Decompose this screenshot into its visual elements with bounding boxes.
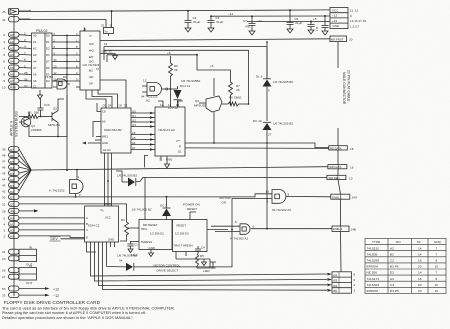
timer 556 D2 right	[173, 220, 208, 252]
wire wr data	[145, 156, 149, 168]
svg-text:7: 7	[436, 252, 438, 256]
svg-text:24: 24	[83, 28, 87, 32]
svg-text:DEV: DEV	[51, 237, 59, 241]
svg-text:D1: D1	[10, 184, 14, 188]
svg-text:94 74LS02 A2: 94 74LS02 A2	[272, 208, 291, 212]
pin number labels 2-10	[2, 32, 28, 90]
svg-text:9: 9	[3, 79, 5, 83]
svg-text:+5: +5	[167, 51, 171, 55]
svg-text:POWER ON: POWER ON	[183, 203, 200, 207]
svg-text:MOTOR: MOTOR	[220, 196, 232, 200]
svg-text:−12: −12	[228, 12, 233, 16]
svg-text:1/6 74LS05 B2: 1/6 74LS05 B2	[117, 174, 137, 178]
svg-text:GND: GND	[102, 141, 108, 145]
svg-text:G∕D: G∕D	[89, 42, 94, 46]
svg-text:A6: A6	[33, 79, 37, 83]
svg-text:560Ω: 560Ω	[234, 96, 242, 100]
svg-text:IRQ: IRQ	[10, 210, 16, 214]
svg-text:74LS132: 74LS132	[367, 246, 380, 250]
svg-text:C4: C4	[201, 246, 205, 250]
ENBL 1 box	[331, 194, 350, 199]
svg-text:NE 556: NE 556	[367, 271, 378, 275]
svg-text:2: 2	[24, 32, 26, 36]
svg-text:¼ 74LS02 A2: ¼ 74LS02 A2	[230, 236, 249, 240]
cap C1 10uF	[127, 242, 139, 253]
svg-text:Ø3: Ø3	[333, 273, 337, 277]
svg-text:D0: D0	[46, 34, 50, 38]
transistor Q1 2N3906	[19, 112, 31, 133]
pins 26 27 IN OUT block	[9, 268, 37, 280]
svg-text:10: 10	[266, 190, 270, 194]
svg-text:H∕Q: H∕Q	[89, 48, 95, 52]
svg-text:2: 2	[79, 193, 81, 197]
svg-text:R3: R3	[121, 218, 125, 222]
resistor R7 3K	[229, 82, 233, 104]
svg-text:D6: D6	[46, 66, 50, 70]
svg-text:+5: +5	[313, 17, 317, 21]
svg-text:10: 10	[435, 265, 439, 269]
timer 556 D2 left	[139, 220, 172, 250]
svg-text:A2 A3: A2 A3	[103, 148, 111, 152]
svg-text:D3: D3	[46, 53, 50, 57]
svg-text:34: 34	[119, 259, 123, 263]
svg-text:D5: D5	[124, 104, 128, 108]
data bus funnel	[19, 35, 328, 192]
svg-text:5: 5	[235, 220, 237, 224]
svg-text:C8: C8	[119, 104, 123, 108]
svg-text:Q3: Q3	[132, 123, 136, 127]
svg-text:B: B	[86, 222, 88, 226]
svg-text:8: 8	[436, 259, 438, 263]
svg-text:A3: A3	[33, 53, 37, 57]
svg-text:16: 16	[418, 277, 422, 281]
svg-text:D4: D4	[108, 104, 112, 108]
LS174 top stubs	[158, 95, 183, 168]
vertical text 20 pin flat cable	[342, 70, 351, 105]
svg-text:10: 10	[349, 176, 353, 180]
svg-text:18: 18	[350, 147, 354, 151]
loop wires q1 q2	[29, 95, 67, 137]
svg-text:GND: GND	[333, 24, 341, 28]
svg-text:A7: A7	[10, 79, 14, 83]
svg-text:C3: C3	[390, 283, 394, 287]
svg-text:9: 9	[267, 199, 269, 203]
schmitt nand A2	[142, 83, 171, 96]
transistor Q3	[199, 78, 228, 143]
svg-text:C2: C2	[390, 259, 394, 263]
svg-text:C1: C1	[134, 243, 138, 247]
svg-text:+5: +5	[210, 64, 214, 68]
WR DATA box	[328, 165, 347, 169]
svg-text:¼ 74LS132: ¼ 74LS132	[49, 189, 65, 193]
svg-text:D4: D4	[10, 166, 14, 170]
svg-text:D0: D0	[10, 190, 14, 194]
power on reset diode	[162, 209, 171, 217]
WR REQ box	[327, 175, 346, 179]
svg-text:Q2: Q2	[132, 118, 136, 122]
svg-text:13,15,17,19: 13,15,17,19	[350, 19, 366, 23]
pin 25 buffer	[9, 9, 31, 15]
svg-text:3: 3	[3, 40, 5, 44]
svg-text:41: 41	[2, 18, 6, 22]
svg-text:4: 4	[3, 222, 5, 226]
svg-text:Q3: Q3	[10, 196, 14, 200]
power pin block	[104, 11, 114, 33]
svg-text:A4: A4	[10, 59, 14, 63]
resistor R6 560	[228, 102, 249, 106]
svg-text:MALE CONNECTOR: MALE CONNECTOR	[342, 72, 346, 105]
svg-text:A4: A4	[33, 60, 37, 64]
svg-text:D2: D2	[10, 178, 14, 182]
latch 74LS323 C7	[80, 28, 100, 91]
svg-text:4: 4	[354, 283, 356, 287]
svg-text:33: 33	[2, 294, 6, 298]
svg-text:C8: C8	[102, 110, 106, 114]
svg-text:14: 14	[418, 252, 422, 256]
svg-text:74LS259: 74LS259	[367, 259, 380, 263]
svg-text:+12: +12	[332, 19, 337, 23]
svg-text:.01μF: .01μF	[295, 21, 303, 25]
svg-text:10: 10	[435, 283, 439, 287]
svg-text:A5: A5	[132, 136, 136, 140]
svg-text:RD DATA: RD DATA	[330, 146, 342, 150]
pins 21 20 IN OUT block	[9, 249, 37, 261]
rc network right of 556	[176, 246, 216, 268]
svg-text:8: 8	[354, 273, 356, 277]
wire pin28 stub w arrow	[19, 210, 34, 212]
svg-text:48: 48	[2, 154, 6, 158]
svg-text:IN: IN	[29, 246, 32, 250]
svg-text:DC4 12: DC4 12	[180, 84, 191, 88]
data pin ovals 49-42	[9, 147, 20, 194]
svg-text:2: 2	[3, 234, 5, 238]
svg-text:5: 5	[268, 89, 270, 93]
diode DL9	[266, 42, 268, 79]
svg-text:43: 43	[2, 184, 6, 188]
svg-text:3: 3	[24, 38, 26, 42]
svg-text:GND: GND	[149, 246, 155, 250]
svg-text:4: 4	[3, 46, 5, 50]
svg-text:Q3: Q3	[10, 203, 14, 207]
svg-text:IN: IN	[29, 264, 32, 268]
svg-text:RESET: RESET	[177, 223, 187, 227]
svg-text:WR PROT: WR PROT	[331, 37, 344, 41]
svg-text:14A: 14A	[352, 196, 357, 200]
svg-text:3K: 3K	[236, 88, 240, 92]
svg-text:C6: C6	[103, 104, 107, 108]
wire wr req	[143, 176, 327, 178]
bus line to gate region	[31, 167, 328, 170]
svg-text:A4: A4	[132, 141, 136, 145]
svg-text:B3 P6: B3 P6	[390, 265, 399, 269]
address pin ovals 2-10	[9, 32, 20, 89]
svg-text:1,3,5,7: 1,3,5,7	[350, 24, 360, 28]
pins 30 31 28 ovals	[9, 194, 256, 218]
svg-text:560: 560	[34, 111, 39, 115]
svg-text:49: 49	[2, 148, 6, 152]
svg-text:30: 30	[2, 195, 6, 199]
svg-text:Q1: Q1	[132, 114, 136, 118]
capacitor C10	[38, 104, 44, 117]
svg-text:13 P12: 13 P12	[168, 106, 178, 110]
svg-text:47: 47	[2, 160, 6, 164]
svg-text:A2: A2	[33, 47, 37, 51]
svg-text:74LS174: 74LS174	[367, 277, 380, 281]
svg-text:SP: SP	[89, 82, 93, 86]
svg-text:Vᶜᶜ: Vᶜᶜ	[176, 139, 180, 143]
P6A bottom stubs to 9334	[105, 153, 112, 206]
wire LS174 vcc to rd data	[143, 143, 329, 177]
svg-text:A7: A7	[33, 66, 37, 70]
svg-text:Ø2: Ø2	[333, 279, 337, 283]
svg-text:7: 7	[436, 271, 438, 275]
svg-text:44: 44	[2, 178, 6, 182]
svg-text:6309 P6A B2: 6309 P6A B2	[104, 128, 122, 132]
ROM P6A B2	[101, 108, 131, 153]
svg-text:A0: A0	[10, 217, 14, 221]
svg-text:26: 26	[2, 269, 6, 273]
svg-text:SYSTEM BUSS: SYSTEM BUSS	[15, 111, 19, 137]
svg-text:1/6 74LS05 B2: 1/6 74LS05 B2	[273, 80, 293, 84]
svg-text:MPSU51: MPSU51	[48, 123, 60, 127]
svg-text:A2: A2	[10, 46, 14, 50]
svg-text:−12: −12	[53, 294, 59, 298]
svg-text:A5: A5	[10, 66, 14, 70]
svg-text:A7: A7	[132, 146, 136, 150]
svg-text:D2: D2	[390, 271, 394, 275]
node +5V line from pin25	[29, 10, 31, 11]
svg-text:9334 C2: 9334 C2	[88, 224, 100, 228]
wires pins2-10 to P5A	[19, 35, 32, 87]
svg-text:RESET: RESET	[187, 207, 197, 211]
svg-text:MOTOR CONTROL: MOTOR CONTROL	[154, 264, 181, 268]
svg-text:31: 31	[2, 202, 6, 206]
svg-text:5: 5	[24, 64, 26, 68]
20 pin connector power block	[330, 8, 348, 29]
svg-text:A6: A6	[10, 73, 14, 77]
svg-text:R6: R6	[229, 96, 233, 100]
svg-text:2: 2	[3, 33, 5, 37]
diode DC10	[263, 123, 272, 130]
svg-text:+12: +12	[257, 19, 262, 23]
decoder 9334 C2	[85, 206, 119, 242]
svg-text:R5: R5	[200, 254, 204, 258]
svg-text:EPROM: EPROM	[367, 265, 379, 269]
wire to diode chain	[104, 47, 267, 105]
svg-text:10: 10	[435, 289, 439, 293]
svg-text:ENBL 1: ENBL 1	[332, 195, 342, 199]
pins 50 33 power	[9, 286, 46, 298]
svg-text:THRESH: THRESH	[141, 240, 153, 244]
svg-text:Detailed operation procedures: Detailed operation procedures are shown …	[2, 316, 134, 320]
svg-text:FLOPPY DISK DRIVE CONTROLLER C: FLOPPY DISK DRIVE CONTROLLER CARD	[4, 300, 100, 305]
svg-text:TRIG: TRIG	[141, 227, 148, 231]
svg-text:6: 6	[354, 278, 356, 282]
wire bus up to data wires	[66, 35, 68, 171]
svg-text:B2: B2	[390, 252, 394, 256]
svg-text:6: 6	[3, 59, 5, 63]
svg-text:36: 36	[24, 77, 28, 81]
svg-text:20: 20	[349, 38, 353, 42]
svg-text:10μF: 10μF	[131, 253, 138, 257]
svg-text:1/6 74LS05B2: 1/6 74LS05B2	[181, 79, 201, 83]
svg-text:14: 14	[418, 271, 422, 275]
svg-text:MPSU55: MPSU55	[194, 104, 206, 108]
svg-text:DRIVE SELECT: DRIVE SELECT	[157, 269, 179, 273]
svg-text:D6: D6	[10, 154, 14, 158]
svg-text:C: C	[86, 228, 88, 232]
svg-text:D3: D3	[10, 172, 14, 176]
svg-text:4: 4	[24, 45, 26, 49]
svg-text:8: 8	[436, 277, 438, 281]
svg-text:2: 2	[354, 289, 356, 293]
transistor Q2	[47, 104, 58, 128]
svg-text:D2: D2	[46, 47, 50, 51]
svg-text:NO: NO	[396, 240, 401, 244]
svg-text:20: 20	[418, 289, 422, 293]
svg-text:C7: C7	[243, 19, 247, 23]
capacitor C6	[308, 22, 315, 35]
junction dots data bus	[66, 35, 68, 82]
data bus wires P5A to latch	[52, 36, 80, 88]
svg-text:C5 Q6: C5 Q6	[104, 202, 113, 206]
svg-text:20: 20	[418, 283, 422, 287]
svg-text:C10: C10	[44, 103, 50, 107]
svg-text:A0: A0	[10, 33, 14, 37]
svg-text:74LS323: 74LS323	[367, 283, 380, 287]
svg-text:14B: 14B	[351, 228, 356, 232]
svg-text:A∕D: A∕D	[89, 75, 93, 79]
ROM P5A 02 B1	[32, 33, 53, 88]
svg-text:Vᶜ: Vᶜ	[89, 34, 92, 38]
wire pin31	[19, 204, 127, 218]
svg-text:Please plug the card into slot: Please plug the card into slot number 6 …	[2, 311, 146, 315]
svg-text:E: E	[86, 236, 88, 240]
svg-text:3K: 3K	[174, 68, 178, 72]
svg-text:D7: D7	[10, 148, 14, 152]
svg-text:45: 45	[2, 172, 6, 176]
svg-text:A1: A1	[10, 40, 14, 44]
svg-text:16: 16	[350, 166, 354, 170]
phase connector block	[332, 272, 352, 293]
svg-text:Q0: Q0	[132, 109, 136, 113]
resistor R3	[120, 218, 139, 242]
svg-text:A: A	[86, 216, 88, 220]
svg-text:D3 P5: D3 P5	[390, 289, 399, 293]
svg-text:A3: A3	[10, 235, 14, 239]
svg-text:D1: D1	[46, 40, 50, 44]
svg-text:Vο: Vο	[105, 29, 109, 33]
svg-text:+12: +12	[53, 287, 59, 291]
svg-text:OUT: OUT	[26, 281, 33, 285]
svg-text:27: 27	[2, 275, 6, 279]
svg-text:D4: D4	[46, 79, 50, 83]
svg-text:WR REQ: WR REQ	[329, 176, 340, 180]
diode 1/6 LS05 mid	[128, 178, 135, 187]
svg-text:10: 10	[2, 86, 6, 90]
svg-text:46: 46	[2, 166, 6, 170]
svg-text:35: 35	[24, 71, 28, 75]
svg-text:A2: A2	[10, 229, 14, 233]
resistor R0 3K	[169, 56, 173, 95]
capacitor C5	[287, 10, 294, 33]
svg-text:B∕2: B∕2	[89, 69, 93, 73]
svg-text:DL 9: DL 9	[256, 75, 263, 79]
svg-text:Ø1: Ø1	[333, 284, 337, 288]
svg-text:1/2 556 D2: 1/2 556 D2	[175, 232, 189, 236]
svg-text:74LS174 A3: 74LS174 A3	[158, 128, 175, 132]
vertical text APPLE II SYSTEM BUSS	[10, 111, 19, 137]
svg-text:5: 5	[3, 53, 5, 57]
wire +5 stub	[107, 55, 231, 82]
svg-text:7: 7	[436, 246, 438, 250]
RD DATA box	[329, 146, 348, 150]
pin 41 oval	[9, 17, 31, 22]
svg-text:P5A 02: P5A 02	[36, 29, 47, 33]
svg-text:VCC: VCC	[105, 216, 111, 220]
svg-text:9: 9	[350, 14, 352, 18]
svg-text:A6: A6	[132, 131, 136, 135]
svg-text:6: 6	[24, 58, 26, 62]
svg-text:Q2: Q2	[53, 107, 57, 111]
svg-text:D7: D7	[46, 60, 50, 64]
hex FF 74LS174 A3	[155, 107, 185, 156]
svg-text:DL: DL	[178, 150, 182, 154]
svg-text:50: 50	[2, 287, 6, 291]
wires LS323 to P6A	[86, 80, 126, 108]
svg-text:20 PIN FLAT CABLE: 20 PIN FLAT CABLE	[347, 70, 351, 102]
svg-text:20: 20	[2, 257, 6, 261]
parts table	[365, 239, 446, 294]
svg-text:.01μF: .01μF	[193, 20, 201, 24]
9334 bottom stubs	[87, 242, 328, 290]
svg-text:12: 12	[143, 79, 147, 83]
svg-text:1: 1	[78, 175, 80, 179]
svg-text:TRIG THRESH: TRIG THRESH	[174, 243, 193, 247]
top +5V power rail	[19, 10, 331, 12]
svg-text:A5: A5	[33, 73, 37, 77]
svg-text:E∕D: E∕D	[89, 55, 93, 59]
svg-text:20: 20	[418, 265, 422, 269]
svg-text:1/2 556 D2: 1/2 556 D2	[150, 232, 164, 236]
svg-text:28: 28	[2, 209, 6, 213]
svg-text:16: 16	[418, 259, 422, 263]
svg-text:2N3906: 2N3906	[31, 128, 42, 132]
svg-text:TYPE: TYPE	[372, 240, 380, 244]
wire to right gate chain	[104, 50, 249, 104]
svg-text:A1: A1	[33, 40, 37, 44]
svg-text:Q3: Q3	[195, 99, 199, 103]
svg-text:GND: GND	[108, 238, 114, 242]
svg-text:D5: D5	[10, 160, 14, 164]
svg-text:A0: A0	[102, 120, 106, 124]
svg-text:7: 7	[3, 66, 5, 70]
capacitor C3	[208, 16, 215, 32]
svg-text:Ø0: Ø0	[333, 289, 337, 293]
svg-text:R: R	[179, 145, 181, 149]
svg-text:LMΩ: LMΩ	[203, 269, 210, 273]
svg-text:7: 7	[24, 51, 26, 55]
capacitor C7	[249, 16, 256, 35]
nor gate A2 right top	[232, 190, 331, 204]
capacitor C2	[185, 11, 192, 32]
right connector spine	[338, 42, 341, 272]
svg-text:8: 8	[288, 192, 290, 196]
schmitt nand B1	[70, 170, 84, 197]
apple bus edge connector spine	[13, 15, 15, 296]
svg-text:C1: C1	[33, 85, 37, 89]
motor control diode	[126, 263, 133, 271]
